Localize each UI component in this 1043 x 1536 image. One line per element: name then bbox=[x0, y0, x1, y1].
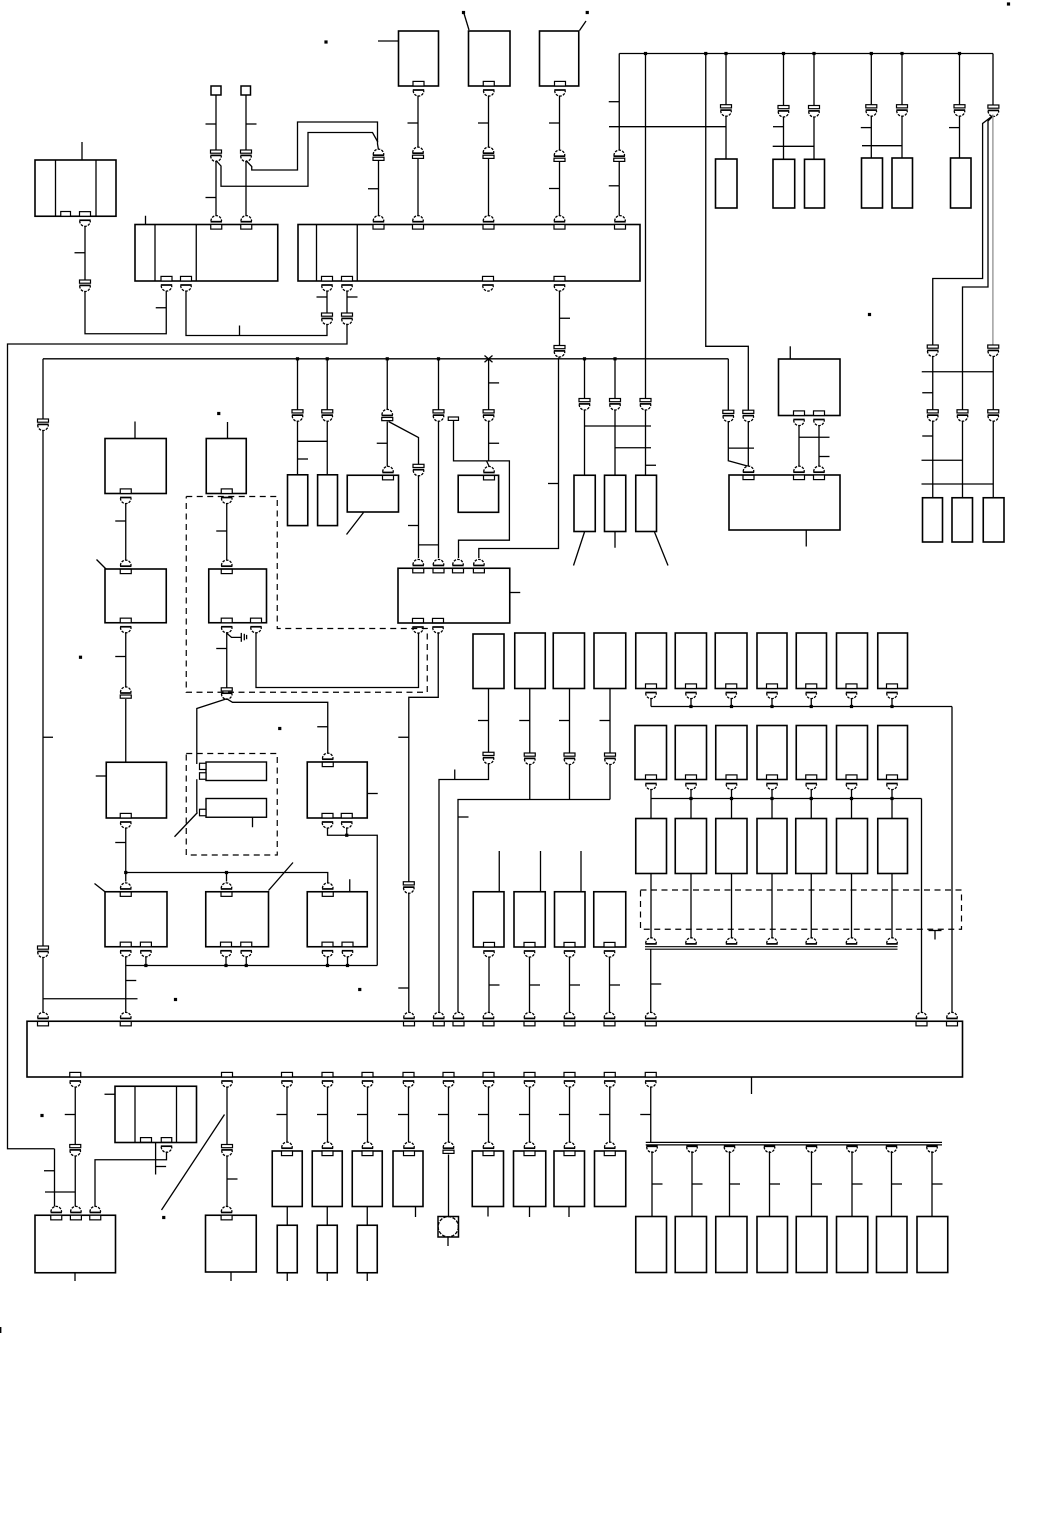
wire bbox=[488, 96, 490, 149]
wire bbox=[488, 1087, 490, 1144]
tick bbox=[892, 1183, 903, 1185]
wire bbox=[771, 698, 773, 707]
connector bbox=[554, 346, 565, 349]
pin bbox=[483, 216, 494, 221]
wire bbox=[8, 324, 348, 1149]
tick bbox=[317, 296, 328, 298]
wire bbox=[870, 54, 872, 105]
stub bbox=[805, 530, 807, 547]
bus pin bbox=[686, 938, 697, 943]
leader bbox=[655, 532, 669, 566]
pin bbox=[322, 1142, 333, 1147]
connector bbox=[38, 946, 49, 949]
tick bbox=[458, 816, 469, 818]
bus 706 bbox=[651, 706, 952, 708]
wire bbox=[529, 689, 531, 754]
wire bbox=[215, 95, 217, 150]
wire bbox=[862, 145, 902, 147]
wire bbox=[747, 421, 749, 466]
pin bbox=[90, 1206, 101, 1212]
wire bbox=[851, 698, 853, 707]
connector bbox=[778, 106, 789, 109]
wire bbox=[346, 828, 348, 836]
junction bbox=[583, 357, 586, 360]
wire bbox=[959, 116, 961, 158]
wire bbox=[95, 1152, 167, 1207]
collector bus 1143 bbox=[646, 1141, 942, 1143]
wire bbox=[891, 874, 893, 940]
fuse F9 bbox=[553, 633, 584, 689]
pin bbox=[564, 1012, 575, 1017]
connector bbox=[120, 687, 131, 693]
connector bbox=[403, 882, 414, 885]
battery divider bbox=[95, 160, 97, 216]
wire bbox=[409, 632, 438, 882]
pin bbox=[604, 942, 615, 947]
tick bbox=[478, 1114, 489, 1116]
tick bbox=[43, 736, 54, 738]
leader bbox=[464, 14, 469, 31]
wire bbox=[811, 1151, 813, 1216]
wire bbox=[386, 359, 388, 410]
switch V bbox=[106, 762, 166, 818]
wire bbox=[327, 957, 329, 966]
pin bbox=[615, 216, 626, 222]
leader bbox=[97, 560, 107, 570]
wire bbox=[769, 1151, 771, 1216]
junction bbox=[890, 797, 893, 800]
pin bbox=[686, 684, 697, 689]
stub bbox=[415, 1207, 417, 1218]
wire bbox=[125, 873, 127, 882]
wire bbox=[286, 1087, 288, 1144]
stub bbox=[751, 1077, 753, 1094]
fuse F6 bbox=[983, 498, 1004, 542]
load B3 bbox=[716, 1217, 747, 1273]
tick bbox=[115, 842, 126, 844]
callout dot bbox=[79, 656, 82, 659]
tick bbox=[398, 736, 409, 738]
wire bbox=[216, 133, 378, 187]
tick bbox=[298, 458, 309, 460]
pin bbox=[806, 775, 817, 780]
fusible link G bbox=[773, 159, 795, 208]
wire bbox=[418, 475, 420, 558]
pin bbox=[887, 775, 898, 780]
wire bbox=[650, 874, 652, 940]
pin bbox=[404, 1012, 415, 1017]
collector bus 947 bbox=[645, 946, 898, 948]
fuse F16 bbox=[837, 633, 868, 689]
wire bbox=[609, 957, 611, 1013]
load B2 bbox=[675, 1217, 706, 1273]
wire bbox=[245, 95, 247, 150]
pin bbox=[413, 618, 424, 623]
wire bbox=[43, 998, 138, 1000]
junction bbox=[689, 797, 692, 800]
pin bbox=[282, 1142, 293, 1147]
wire bbox=[618, 186, 620, 216]
wire bbox=[366, 1207, 368, 1226]
fuse F7 bbox=[473, 634, 504, 689]
pin bbox=[604, 1142, 615, 1147]
tick bbox=[126, 980, 137, 982]
wire bbox=[851, 799, 853, 819]
pin bbox=[373, 216, 384, 221]
tick bbox=[357, 1114, 368, 1116]
bus pin bbox=[646, 938, 657, 943]
pin bbox=[524, 1142, 535, 1148]
wire bbox=[725, 116, 727, 159]
pin bbox=[221, 618, 232, 623]
wire bbox=[326, 359, 328, 410]
wire bbox=[810, 789, 812, 799]
wire bbox=[417, 159, 419, 216]
power bus bbox=[619, 53, 993, 55]
wire bbox=[650, 949, 652, 1012]
tick bbox=[519, 1114, 530, 1116]
connector bbox=[38, 419, 49, 422]
fusible link I bbox=[862, 158, 883, 208]
tick bbox=[489, 442, 500, 444]
junction bbox=[704, 52, 707, 55]
load B5 bbox=[796, 1217, 827, 1273]
tick bbox=[548, 483, 559, 485]
wire bbox=[691, 1151, 693, 1216]
tick bbox=[560, 317, 571, 319]
stub bbox=[227, 422, 229, 439]
wire bbox=[951, 707, 953, 1013]
wire bbox=[488, 159, 490, 216]
junction bbox=[812, 52, 815, 55]
wire bbox=[346, 302, 348, 313]
wire bbox=[559, 291, 561, 346]
pin bbox=[767, 684, 778, 689]
pin bbox=[846, 684, 857, 689]
wire bbox=[901, 54, 903, 105]
tick bbox=[570, 984, 581, 986]
tick bbox=[246, 123, 257, 125]
stub bbox=[580, 851, 582, 892]
load T3 bbox=[352, 1151, 382, 1207]
tick bbox=[609, 101, 620, 103]
stub bbox=[349, 879, 351, 892]
wire bbox=[799, 436, 830, 438]
connector bbox=[866, 105, 877, 108]
junction bbox=[326, 964, 329, 967]
connector bbox=[640, 399, 651, 402]
junction bbox=[224, 964, 227, 967]
wire bbox=[529, 764, 531, 800]
wire bbox=[813, 117, 815, 160]
battery pin bbox=[80, 212, 91, 217]
pin bbox=[413, 81, 424, 86]
pin bbox=[524, 942, 535, 947]
divider bbox=[316, 225, 318, 282]
wire bbox=[145, 957, 147, 966]
junction bbox=[144, 964, 147, 967]
pin bbox=[120, 883, 131, 889]
tick bbox=[115, 656, 126, 658]
wire bbox=[851, 874, 853, 940]
wire bbox=[84, 226, 86, 280]
pin bbox=[806, 684, 817, 689]
ground bbox=[227, 633, 241, 637]
tick bbox=[377, 442, 388, 444]
pin bbox=[483, 1072, 494, 1077]
pin bbox=[686, 775, 697, 780]
connector bbox=[80, 280, 91, 283]
connector bbox=[322, 410, 333, 413]
wire bbox=[651, 1151, 653, 1216]
wire bbox=[297, 359, 299, 410]
pin bbox=[221, 489, 232, 494]
wire bbox=[932, 421, 934, 498]
wire bbox=[771, 874, 773, 940]
wire bbox=[226, 503, 228, 560]
connector bbox=[721, 105, 732, 108]
connector bbox=[957, 410, 968, 413]
wire bbox=[569, 764, 571, 800]
terminal post 2 bbox=[241, 86, 251, 95]
wire bbox=[773, 145, 814, 147]
wire bbox=[650, 698, 652, 707]
relay B2 bbox=[469, 31, 511, 86]
junction bbox=[730, 797, 733, 800]
wire bbox=[891, 698, 893, 707]
load B6 bbox=[837, 1217, 868, 1273]
junction bbox=[770, 797, 773, 800]
pin bbox=[282, 1072, 293, 1077]
leader bbox=[95, 884, 106, 892]
pin bbox=[38, 1012, 49, 1017]
connector bbox=[605, 753, 616, 756]
pin bbox=[846, 775, 857, 780]
wire bbox=[771, 799, 773, 819]
dashed group 2 bbox=[186, 754, 277, 856]
stub bbox=[286, 1273, 288, 1281]
ground bar bbox=[240, 633, 242, 642]
stub bbox=[614, 532, 616, 548]
pin bbox=[564, 1072, 575, 1077]
pin bbox=[222, 1072, 233, 1077]
fusible link J bbox=[892, 158, 913, 208]
pin bbox=[484, 466, 495, 471]
fuse R4 bbox=[757, 819, 787, 874]
wire bbox=[618, 162, 620, 186]
relay G6 bbox=[837, 726, 868, 780]
connector bbox=[413, 147, 424, 153]
connector bbox=[743, 410, 754, 413]
junction block C bbox=[135, 225, 278, 282]
junction bbox=[782, 52, 785, 55]
pin bbox=[120, 1012, 131, 1018]
tick bbox=[454, 770, 456, 780]
tick bbox=[610, 984, 621, 986]
bus pin bbox=[927, 1147, 938, 1153]
wire bbox=[367, 1087, 369, 1144]
pin bbox=[120, 942, 131, 947]
wire bbox=[408, 1087, 410, 1144]
tick bbox=[277, 1114, 288, 1116]
wire bbox=[346, 291, 348, 303]
fuse F3 bbox=[636, 475, 657, 531]
pin bbox=[140, 942, 151, 947]
stub bbox=[568, 1207, 570, 1218]
connector bbox=[610, 399, 621, 402]
wire bbox=[81, 142, 83, 160]
wire bbox=[933, 116, 993, 346]
wire bbox=[810, 698, 812, 707]
wire bbox=[256, 632, 419, 687]
tick bbox=[609, 185, 620, 187]
wire bbox=[297, 421, 299, 475]
stub bbox=[134, 422, 136, 439]
pin bbox=[322, 276, 333, 281]
load B4 bbox=[757, 1217, 788, 1273]
leader bbox=[162, 1115, 225, 1211]
wire bbox=[851, 789, 853, 799]
wire bbox=[54, 1149, 56, 1207]
resistor bar 1 bbox=[206, 762, 267, 781]
leader bbox=[347, 513, 364, 535]
pin bbox=[241, 216, 252, 222]
connector bbox=[222, 1145, 233, 1148]
wire bbox=[992, 356, 994, 410]
relay G2 bbox=[675, 726, 706, 780]
wire bbox=[125, 699, 127, 762]
tick bbox=[489, 984, 500, 986]
pin bbox=[604, 1072, 615, 1077]
tick bbox=[216, 530, 227, 532]
wire bbox=[438, 421, 440, 558]
pin bbox=[814, 411, 825, 416]
pin bbox=[604, 1012, 615, 1017]
wire bbox=[618, 54, 620, 152]
pin bbox=[554, 216, 565, 222]
connector bbox=[524, 753, 535, 756]
stub bbox=[529, 1207, 531, 1218]
tick bbox=[227, 1178, 238, 1180]
pin bbox=[474, 559, 485, 565]
tick bbox=[730, 1183, 741, 1185]
pin bbox=[646, 775, 657, 780]
wire bbox=[74, 1087, 76, 1145]
resistor bar 2 bbox=[206, 799, 267, 818]
fusible link F bbox=[716, 159, 738, 208]
wire bbox=[485, 356, 493, 363]
battery bbox=[35, 160, 116, 216]
tick bbox=[96, 775, 107, 777]
bus 965 bbox=[126, 965, 378, 967]
switch N bbox=[105, 569, 166, 623]
connector bbox=[614, 150, 625, 156]
relay Q bbox=[347, 475, 398, 512]
callout dot bbox=[40, 1114, 43, 1117]
pin bbox=[221, 1206, 232, 1211]
junction bbox=[870, 52, 873, 55]
pin bbox=[383, 466, 394, 471]
wire bbox=[891, 1151, 893, 1216]
wire bbox=[479, 357, 560, 559]
wire bbox=[326, 291, 328, 314]
relay AA bbox=[307, 762, 367, 818]
connector bbox=[413, 464, 424, 467]
leader bbox=[175, 813, 198, 837]
pin bbox=[794, 466, 805, 471]
fusible link H bbox=[805, 159, 825, 208]
callout dot bbox=[868, 313, 871, 316]
connector bbox=[988, 105, 999, 108]
bus pin bbox=[724, 1147, 735, 1152]
wire bbox=[454, 421, 510, 559]
tick bbox=[559, 1114, 570, 1116]
pin bbox=[564, 942, 575, 947]
tick bbox=[530, 984, 541, 986]
wire bbox=[487, 461, 490, 466]
load T6 bbox=[472, 1151, 503, 1207]
pin bbox=[120, 813, 131, 818]
wire bbox=[485, 356, 493, 363]
wire bbox=[725, 54, 727, 105]
tick bbox=[773, 126, 784, 128]
stub bbox=[252, 817, 254, 827]
junction bbox=[958, 52, 961, 55]
stub bbox=[378, 40, 399, 42]
resistor S3 bbox=[357, 1225, 377, 1273]
ground bar bbox=[243, 634, 245, 641]
pin bbox=[413, 216, 424, 222]
wire bbox=[226, 873, 228, 882]
stub bbox=[145, 216, 147, 225]
fuse panel bbox=[27, 1021, 963, 1077]
wire bbox=[246, 122, 379, 170]
junction bbox=[386, 357, 389, 360]
wire bbox=[614, 359, 616, 399]
fuse F10 bbox=[594, 633, 626, 689]
pin bbox=[433, 559, 444, 564]
wire bbox=[408, 893, 410, 1012]
bus pin bbox=[847, 1147, 858, 1152]
wire bbox=[813, 54, 815, 106]
wire bbox=[690, 789, 692, 799]
wire bbox=[458, 800, 610, 1013]
wire bbox=[386, 422, 388, 467]
callout dot bbox=[324, 40, 327, 43]
pin bbox=[483, 1142, 494, 1147]
wire bbox=[584, 410, 586, 476]
pin bbox=[646, 684, 657, 689]
tick bbox=[105, 1093, 116, 1095]
bus pin bbox=[726, 938, 737, 943]
switch M bbox=[105, 439, 166, 494]
wire bbox=[645, 54, 647, 399]
connector bbox=[221, 688, 232, 691]
stub bbox=[230, 1272, 232, 1281]
pin bbox=[794, 411, 805, 416]
junction bbox=[890, 705, 893, 708]
relay JJ1 bbox=[514, 892, 545, 947]
fuse R5 bbox=[796, 819, 827, 874]
tick bbox=[398, 987, 409, 989]
wire bbox=[125, 966, 127, 1013]
tick bbox=[861, 127, 872, 129]
wire bbox=[783, 117, 785, 160]
load T2 bbox=[312, 1151, 342, 1207]
terminal stub bbox=[448, 417, 458, 420]
wire bbox=[417, 96, 419, 149]
wire bbox=[771, 789, 773, 799]
